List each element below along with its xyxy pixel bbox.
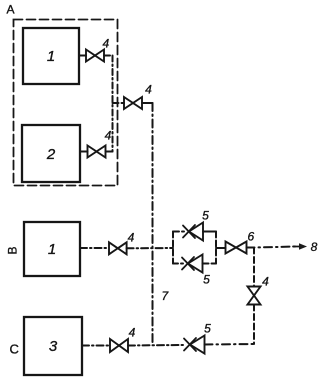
bypass drop below valve (253, 305, 255, 345)
wire bottom check valve to bypass corner (205, 343, 255, 346)
wire to lower check valve (173, 263, 183, 265)
svg-text:7: 7 (162, 289, 170, 303)
wire tank3 to valve (82, 345, 110, 347)
wire manifold valve to main line (142, 102, 153, 104)
check valve 5 (upper) (189, 223, 203, 241)
wire lower check valve out (203, 263, 217, 265)
svg-text:4: 4 (128, 231, 135, 245)
svg-text:B: B (6, 246, 20, 254)
wire tank2 to valve (80, 151, 88, 153)
wire tank1 to valve (79, 55, 86, 57)
tank 1 (top) (23, 28, 79, 84)
svg-text:4: 4 (262, 275, 269, 289)
svg-text:5: 5 (203, 273, 210, 287)
svg-text:6: 6 (247, 230, 254, 244)
svg-text:2: 2 (46, 146, 56, 163)
svg-text:5: 5 (202, 209, 209, 223)
svg-text:4: 4 (145, 83, 152, 97)
tank 3 (24, 317, 82, 375)
header pipe (vertical inside enclosure) (112, 56, 114, 152)
svg-text:3: 3 (49, 338, 58, 355)
bypass drop to vertical valve (253, 248, 255, 287)
valve 4 (tank 3 line) (110, 339, 128, 352)
svg-text:4: 4 (129, 326, 136, 340)
outlet arrow (293, 246, 299, 248)
enclosure A (dashed boundary) (14, 20, 118, 186)
wire upper check valve out (203, 231, 216, 233)
valve 4 (tank 1 outlet) (86, 50, 104, 62)
main line 7 (vertical) (152, 103, 154, 345)
wire header to manifold valve (113, 102, 125, 104)
wire valve to header elbow (104, 55, 113, 57)
check valve 5 (bottom) (190, 336, 205, 354)
wire valve2 to header (106, 151, 113, 153)
branch riser (check valve pair) (172, 232, 174, 264)
svg-text:C: C (10, 342, 19, 357)
wire middle valve to branch point (127, 247, 173, 249)
wire valve 6 to outlet (247, 247, 297, 248)
wire to upper check valve (173, 231, 184, 233)
valve 4 (manifold) (124, 97, 142, 109)
valve 4 (middle line) (109, 242, 127, 254)
valve 4 (tank 2 outlet) (88, 146, 106, 158)
svg-text:1: 1 (47, 48, 55, 65)
svg-text:4: 4 (102, 37, 109, 51)
svg-text:4: 4 (105, 129, 112, 143)
svg-text:A: A (7, 3, 15, 17)
tank 2 (22, 125, 80, 182)
tank 1 (middle) (24, 222, 80, 276)
wire middle tank to valve (80, 247, 109, 249)
svg-text:1: 1 (48, 241, 56, 258)
wire collector to valve 6 (216, 247, 226, 249)
valve 4 (vertical bypass) (248, 287, 261, 305)
valve 6 (226, 242, 247, 254)
svg-text:8: 8 (311, 240, 318, 254)
svg-text:5: 5 (204, 322, 211, 336)
check valve 5 (lower) (188, 255, 203, 273)
collector drop (right of check valves) (215, 232, 217, 264)
wire valve to check valve (128, 344, 185, 347)
